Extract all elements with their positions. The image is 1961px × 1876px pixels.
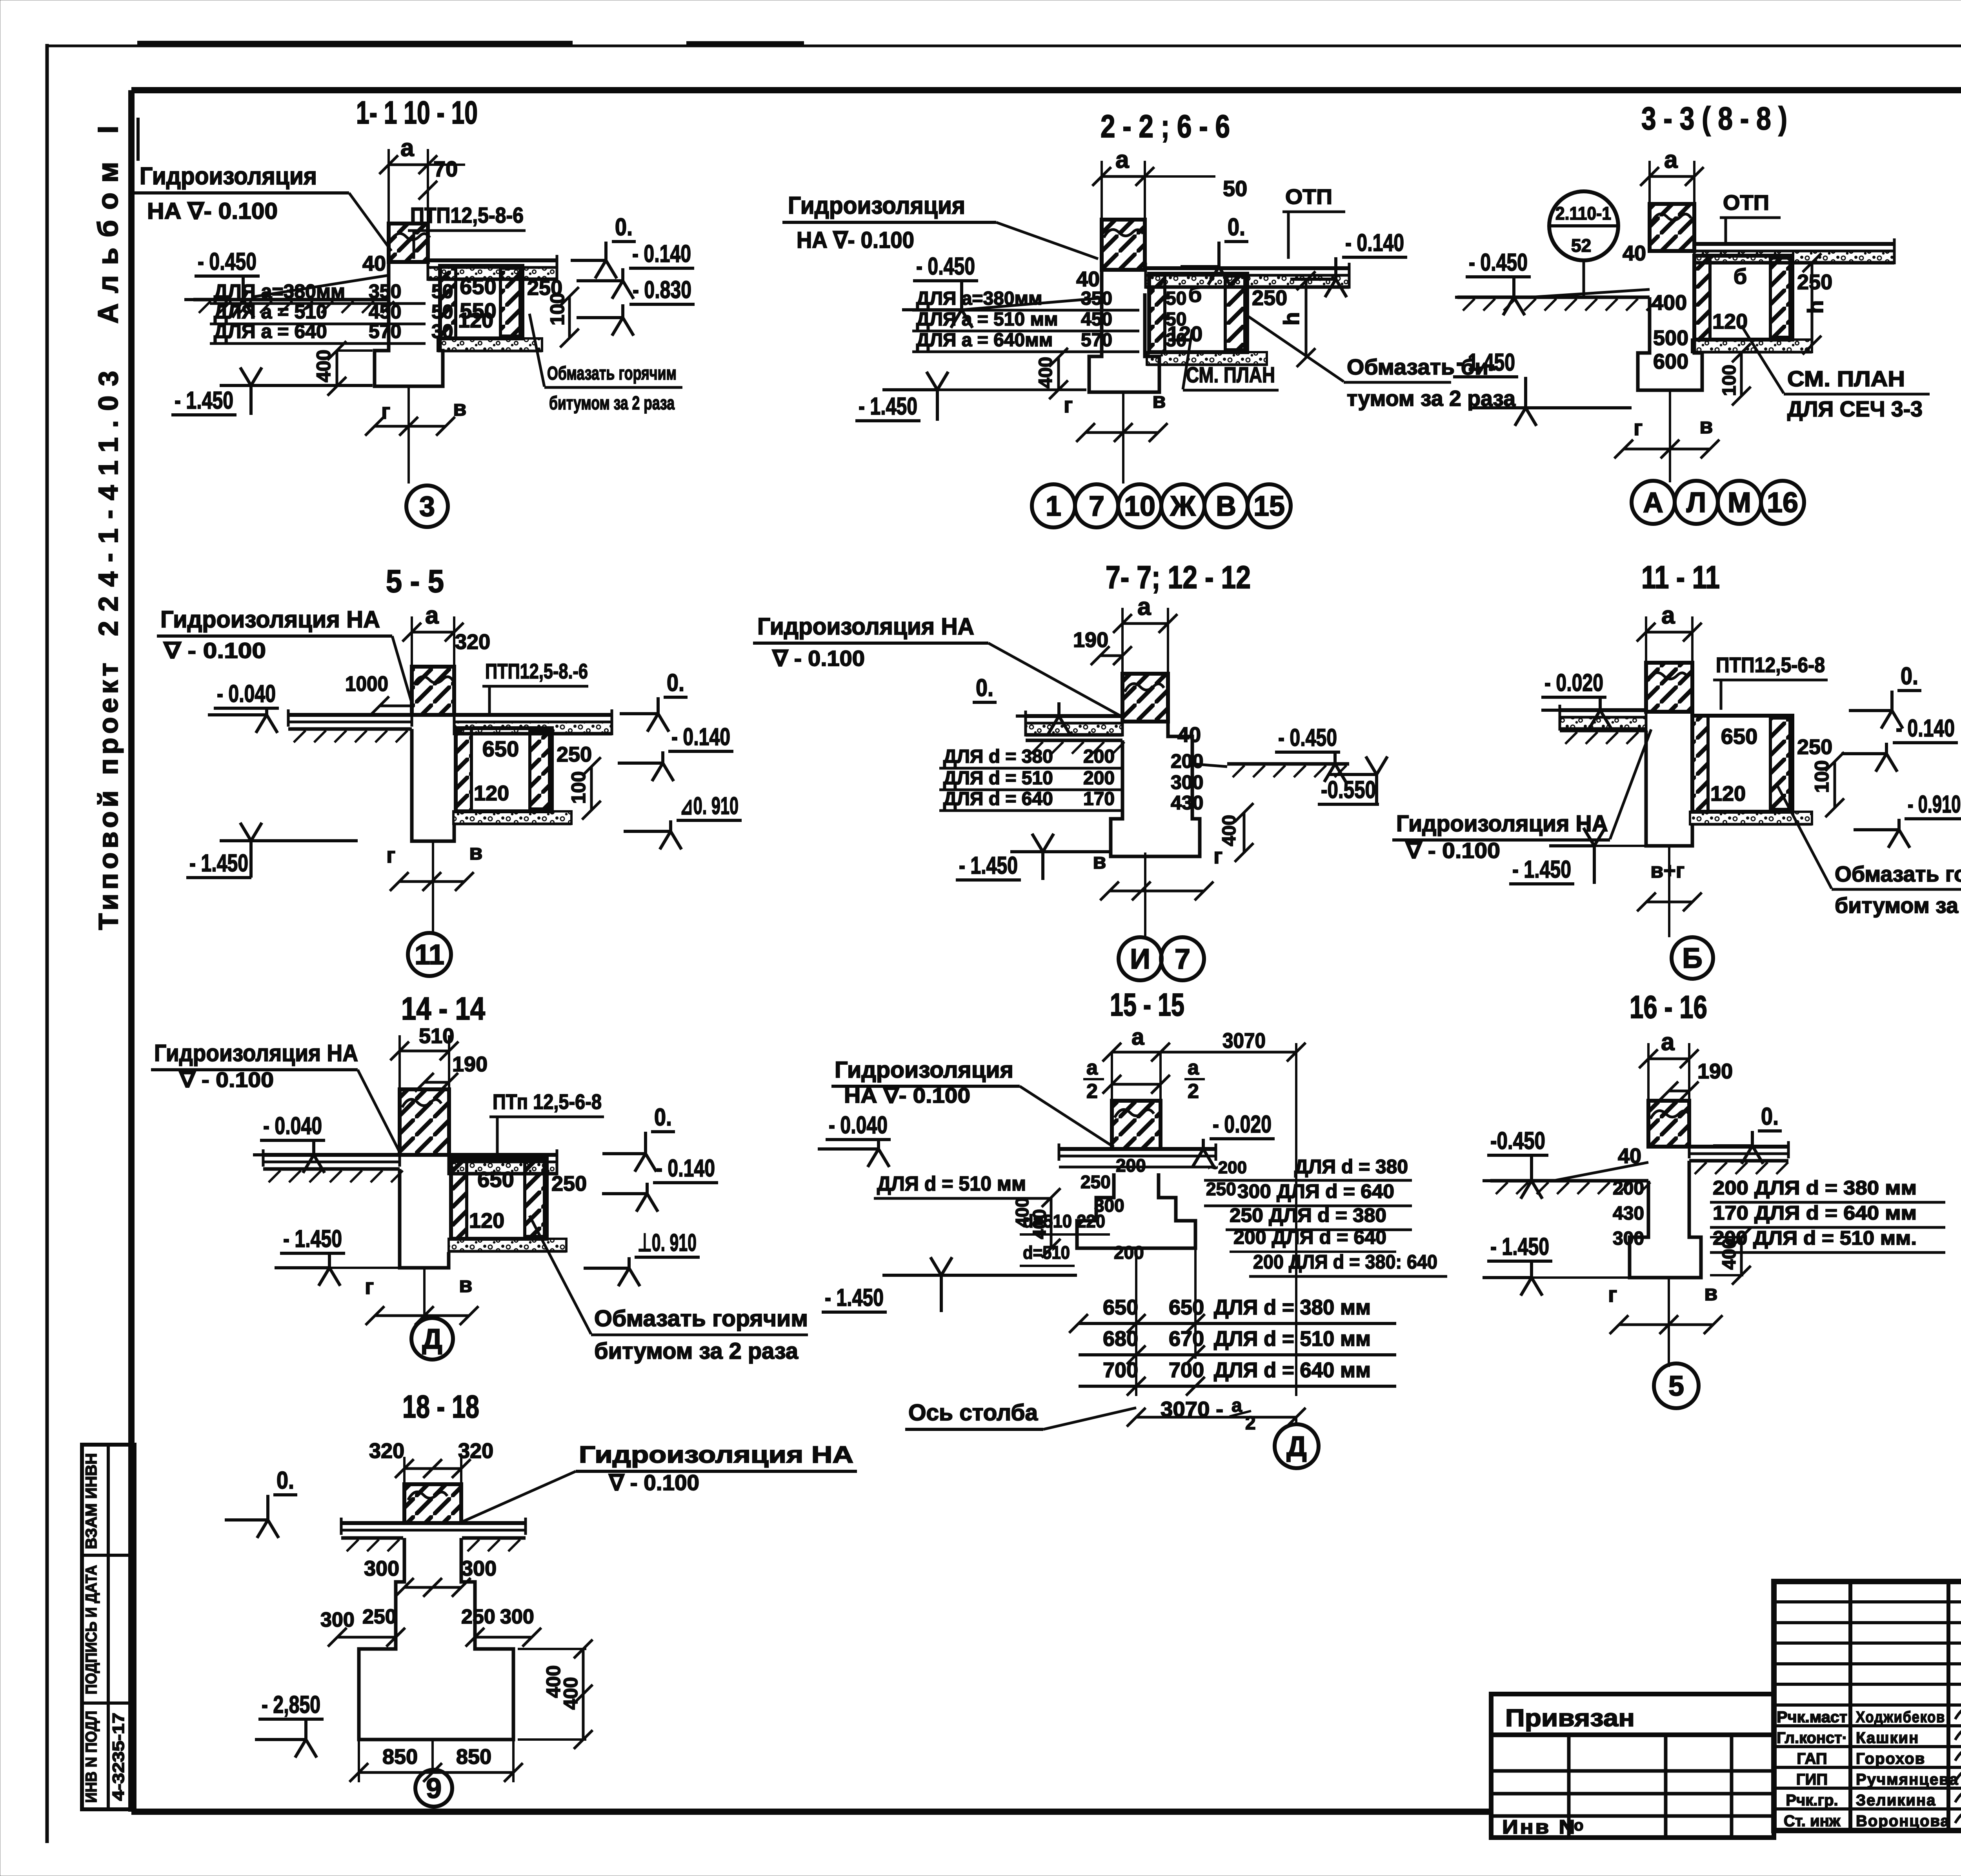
svg-text:Альбом I: Альбом I — [93, 116, 124, 324]
svg-text:200 ДЛЯ d = 640: 200 ДЛЯ d = 640 — [1233, 1226, 1386, 1248]
svg-text:ДЛЯ d = 640 мм: ДЛЯ d = 640 мм — [1214, 1358, 1371, 1382]
svg-text:Д: Д — [422, 1323, 442, 1355]
svg-text:450: 450 — [1081, 309, 1112, 330]
svg-text:Ст. инж: Ст. инж — [1784, 1812, 1841, 1830]
svg-text:650: 650 — [460, 274, 496, 299]
svg-text:0.: 0. — [654, 1104, 672, 1131]
bottom-left rotated stamp column — [82, 1445, 135, 1809]
svg-text:Привязан: Привязан — [1505, 1705, 1635, 1732]
svg-text:300: 300 — [461, 1557, 497, 1580]
svg-text:в: в — [469, 840, 482, 864]
svg-text:а: а — [1115, 146, 1129, 173]
basement box 5-5 — [456, 728, 552, 811]
sheet inner frame — [131, 87, 1961, 93]
svg-text:Ж: Ж — [1170, 491, 1196, 522]
pier below 5-5 — [412, 729, 454, 841]
svg-text:Ось столба: Ось столба — [908, 1400, 1038, 1425]
svg-text:∇ - 0.100: ∇ - 0.100 — [163, 638, 266, 663]
pier and footing 7-7 — [1111, 740, 1200, 856]
svg-text:- 0.140: - 0.140 — [671, 723, 730, 751]
floor slab right 1-1 — [428, 258, 557, 262]
pier below 11-11 — [1646, 731, 1692, 846]
svg-text:СМ. ПЛАН: СМ. ПЛАН — [1186, 362, 1275, 387]
floor slab left 7-7 — [1026, 714, 1122, 718]
svg-text:300: 300 — [500, 1605, 534, 1628]
svg-text:15 - 15: 15 - 15 — [1110, 987, 1184, 1023]
svg-text:Гл.конст·: Гл.конст· — [1777, 1729, 1847, 1747]
svg-text:200: 200 — [1114, 1242, 1144, 1263]
svg-text:16: 16 — [1767, 487, 1798, 518]
column wall hatched 11-11 — [1646, 631, 1692, 634]
svg-text:а: а — [1131, 1024, 1144, 1050]
svg-text:40: 40 — [1623, 242, 1646, 265]
svg-text:430: 430 — [1613, 1203, 1644, 1224]
svg-text:190: 190 — [1073, 628, 1108, 652]
svg-text:650: 650 — [1103, 1296, 1138, 1319]
svg-text:В: В — [1216, 491, 1236, 522]
svg-text:170 ДЛЯ d = 640 мм: 170 ДЛЯ d = 640 мм — [1713, 1202, 1917, 1224]
svg-text:670: 670 — [1169, 1327, 1204, 1351]
svg-text:в: в — [453, 396, 466, 420]
callout bubble 2.110-1/52 — [1549, 191, 1618, 260]
axis circle 11 — [408, 933, 451, 976]
right ledge 7-7 — [1168, 716, 1192, 764]
svg-text:320: 320 — [369, 1439, 404, 1463]
svg-text:г: г — [1634, 415, 1643, 440]
column wall hatched 7-7 — [1122, 622, 1168, 625]
svg-text:а: а — [1086, 1056, 1098, 1079]
stepped pier 15-15 — [1077, 1173, 1195, 1248]
svg-text:б: б — [1188, 282, 1202, 307]
svg-text:ПТП12,5-8.-6: ПТП12,5-8.-6 — [485, 660, 588, 683]
svg-text:∇ - 0.100: ∇ - 0.100 — [1405, 838, 1500, 863]
svg-text:НА ∇- 0.100: НА ∇- 0.100 — [147, 198, 278, 224]
svg-text:ДЛЯ а=380мм: ДЛЯ а=380мм — [214, 280, 345, 302]
svg-text:ОТП: ОТП — [1723, 191, 1769, 215]
svg-text:300: 300 — [320, 1609, 355, 1631]
svg-text:250: 250 — [1252, 286, 1287, 310]
svg-text:ИНВ N ПОДЛ: ИНВ N ПОДЛ — [83, 1711, 100, 1803]
svg-text:- 0.040: - 0.040 — [263, 1113, 322, 1140]
svg-text:- 1.450: - 1.450 — [1456, 349, 1515, 376]
axis circles 1 7 10 Ж В 15 — [1032, 484, 1075, 527]
svg-text:120: 120 — [474, 782, 509, 805]
svg-text:- 0.450: - 0.450 — [916, 253, 975, 280]
svg-text:- 0.450: - 0.450 — [198, 248, 256, 275]
ground slope 2-2 — [962, 298, 1102, 310]
svg-text:250: 250 — [362, 1605, 397, 1628]
svg-text:а: а — [1661, 602, 1675, 629]
svg-text:в: в — [459, 1272, 472, 1297]
foundation wall below ground 1-1 — [375, 262, 443, 386]
svg-text:Кашкин: Кашкин — [1856, 1729, 1919, 1747]
axis circle Д 15-15 — [1275, 1424, 1319, 1468]
svg-text:650: 650 — [1721, 724, 1757, 749]
svg-text:- 0.450: - 0.450 — [1469, 249, 1528, 276]
svg-text:120: 120 — [1712, 310, 1748, 333]
svg-text:Обмазать горячим: Обмазать горячим — [1835, 862, 1961, 886]
svg-text:3070: 3070 — [1222, 1029, 1266, 1053]
svg-text:~200: ~200 — [1208, 1158, 1247, 1177]
svg-text:70: 70 — [433, 156, 458, 181]
svg-text:Гидроизоляция: Гидроизоляция — [788, 192, 965, 219]
svg-text:ВЗАМ ИНВН: ВЗАМ ИНВН — [83, 1453, 100, 1549]
svg-text:650: 650 — [477, 1167, 514, 1192]
svg-text:0.: 0. — [976, 674, 993, 702]
svg-text:50: 50 — [1166, 309, 1186, 330]
svg-text:50: 50 — [1166, 288, 1186, 309]
svg-text:Д: Д — [1286, 1431, 1306, 1462]
svg-text:200: 200 — [1083, 768, 1115, 789]
svg-text:0.: 0. — [1901, 663, 1918, 690]
axis circle Б — [1672, 937, 1713, 979]
svg-text:ДЛЯ d = 380 мм: ДЛЯ d = 380 мм — [1214, 1296, 1371, 1319]
svg-text:- 1.450: - 1.450 — [959, 852, 1018, 879]
svg-text:0.: 0. — [615, 214, 633, 241]
svg-text:5 - 5: 5 - 5 — [386, 564, 444, 599]
svg-text:250 ДЛЯ d = 380: 250 ДЛЯ d = 380 — [1230, 1204, 1386, 1226]
svg-text:Л: Л — [1686, 487, 1706, 518]
svg-text:600: 600 — [1653, 350, 1688, 373]
svg-text:200 ДЛЯ d = 380 мм: 200 ДЛЯ d = 380 мм — [1713, 1177, 1917, 1199]
svg-text:250: 250 — [461, 1605, 495, 1628]
svg-text:⊿0. 910: ⊿0. 910 — [680, 793, 739, 820]
svg-text:300 ДЛЯ d = 640: 300 ДЛЯ d = 640 — [1237, 1180, 1394, 1202]
floor slab right 3-3 — [1694, 242, 1894, 246]
svg-text:а: а — [425, 602, 439, 629]
svg-text:200: 200 — [1171, 750, 1203, 772]
axis circles И 7 — [1119, 937, 1162, 980]
svg-text:18 - 18: 18 - 18 — [402, 1389, 479, 1425]
svg-text:ПТП12,5-8-6: ПТП12,5-8-6 — [410, 203, 524, 227]
column wall hatched 3-3 — [1650, 175, 1694, 178]
svg-text:7: 7 — [1175, 943, 1190, 975]
svg-text:250: 250 — [1081, 1172, 1111, 1192]
svg-text:0.: 0. — [1761, 1103, 1779, 1130]
svg-text:40: 40 — [362, 252, 386, 275]
svg-text:0.: 0. — [667, 669, 684, 696]
svg-text:400: 400 — [1029, 1209, 1050, 1239]
svg-text:250: 250 — [1206, 1179, 1236, 1199]
svg-text:- 0.040: - 0.040 — [829, 1112, 888, 1139]
svg-text:ОТП: ОТП — [1285, 185, 1332, 209]
svg-text:1- 1 10 - 10: 1- 1 10 - 10 — [356, 95, 478, 131]
svg-text:190: 190 — [1697, 1060, 1733, 1083]
svg-text:ДЛЯ d = 380: ДЛЯ d = 380 — [943, 746, 1053, 767]
column wall hatched 15-15 — [1112, 1101, 1161, 1149]
svg-text:НА ∇- 0.100: НА ∇- 0.100 — [797, 227, 914, 253]
basement box 1-1 — [440, 266, 522, 338]
svg-text:40: 40 — [1076, 267, 1100, 291]
svg-text:в: в — [1093, 849, 1106, 873]
svg-text:- 0.020: - 0.020 — [1213, 1111, 1272, 1138]
svg-text:б: б — [1734, 264, 1747, 289]
svg-text:14 - 14: 14 - 14 — [401, 991, 485, 1027]
svg-text:120: 120 — [458, 309, 493, 332]
column wall hatched 18-18 — [404, 1484, 461, 1523]
floor slab left 5-5 (ground level) — [288, 713, 412, 717]
svg-text:Гидроизоляция НА: Гидроизоляция НА — [154, 1040, 358, 1066]
svg-text:52: 52 — [1571, 235, 1591, 256]
svg-text:ДЛЯ а = 640: ДЛЯ а = 640 — [214, 320, 327, 342]
foundation wall below 2-2 — [1089, 270, 1159, 392]
svg-text:h: h — [1803, 300, 1828, 314]
svg-text:- 2,850: - 2,850 — [262, 1691, 320, 1718]
svg-text:3 - 3 ( 8 - 8 ): 3 - 3 ( 8 - 8 ) — [1641, 101, 1787, 136]
svg-text:Типовой проект: Типовой проект — [93, 659, 124, 930]
svg-text:Обмазать горячим: Обмазать горячим — [594, 1306, 808, 1331]
sheet outer border top line — [47, 45, 1961, 47]
svg-text:ДЛЯ а=380мм: ДЛЯ а=380мм — [916, 288, 1042, 309]
ground left 1-1 — [193, 298, 389, 302]
svg-text:ДЛЯ d = 380: ДЛЯ d = 380 — [1294, 1156, 1408, 1178]
svg-text:Гидроизоляция НА: Гидроизоляция НА — [757, 613, 974, 640]
svg-text:а: а — [1664, 146, 1678, 173]
svg-text:И: И — [1130, 943, 1150, 975]
ground left 3-3 — [1457, 296, 1650, 299]
svg-text:в+г: в+г — [1650, 859, 1684, 882]
svg-text:50: 50 — [1223, 176, 1247, 201]
column wall hatched 2-2 — [1102, 175, 1145, 178]
svg-text:11 - 11: 11 - 11 — [1641, 560, 1720, 595]
foundation wall below 3-3 — [1638, 263, 1702, 390]
svg-text:250: 250 — [551, 1172, 587, 1196]
axis circle Д 14-14 — [411, 1318, 453, 1360]
svg-text:320: 320 — [458, 1439, 493, 1463]
svg-text:120: 120 — [469, 1209, 504, 1232]
svg-text:200: 200 — [1613, 1178, 1644, 1199]
svg-text:250: 250 — [1797, 735, 1832, 759]
svg-text:300: 300 — [364, 1557, 399, 1580]
svg-text:5: 5 — [1668, 1371, 1684, 1402]
svg-text:Рчк.маст: Рчк.маст — [1777, 1709, 1847, 1726]
basement box 11-11 — [1692, 716, 1792, 812]
svg-text:170: 170 — [1083, 789, 1115, 809]
svg-text:г: г — [1213, 843, 1222, 868]
svg-text:ДЛЯ d = 510: ДЛЯ d = 510 — [943, 768, 1053, 789]
svg-text:г: г — [1064, 393, 1073, 417]
axis circles А Л М 16 — [1632, 481, 1675, 524]
svg-text:570: 570 — [369, 320, 401, 342]
svg-text:250: 250 — [1797, 271, 1832, 294]
svg-text:Горохов: Горохов — [1856, 1750, 1925, 1767]
svg-text:2.110-1: 2.110-1 — [1555, 203, 1611, 224]
svg-text:М: М — [1728, 487, 1751, 518]
svg-text:450: 450 — [369, 301, 401, 323]
floor slab right 14-14 — [449, 1153, 557, 1157]
basement box 3-3 — [1694, 256, 1792, 340]
svg-text:1000: 1000 — [345, 672, 388, 696]
svg-text:4-3235-17: 4-3235-17 — [109, 1713, 127, 1801]
svg-text:- 1.450: - 1.450 — [283, 1225, 342, 1252]
svg-text:200: 200 — [1116, 1155, 1146, 1176]
svg-text:ДЛЯ а = 640мм: ДЛЯ а = 640мм — [916, 330, 1053, 351]
svg-text:Гидроизоляция НА: Гидроизоляция НА — [1396, 811, 1608, 836]
svg-text:ДЛЯ а = 510 мм: ДЛЯ а = 510 мм — [916, 309, 1058, 330]
svg-text:h: h — [1279, 312, 1304, 325]
svg-text:ПОДПИСЬ И ДАТА: ПОДПИСЬ И ДАТА — [83, 1565, 100, 1694]
svg-text:Гидроизоляция: Гидроизоляция — [835, 1057, 1013, 1083]
svg-text:а: а — [1661, 1029, 1675, 1056]
floor slab left 11-11 — [1560, 708, 1646, 712]
svg-text:700: 700 — [1103, 1358, 1138, 1382]
svg-text:9: 9 — [426, 1773, 442, 1804]
svg-text:200: 200 — [1083, 746, 1115, 767]
svg-text:А: А — [1643, 487, 1663, 518]
column wall hatched 16-16 — [1648, 1058, 1689, 1060]
svg-text:в: в — [1699, 413, 1713, 438]
svg-text:40: 40 — [1618, 1144, 1641, 1168]
column wall hatched 14-14 — [400, 1050, 449, 1053]
svg-text:битумом за 2 раза: битумом за 2 раза — [549, 393, 675, 414]
svg-text:битумом за 2 раза: битумом за 2 раза — [1835, 893, 1961, 918]
svg-text:Рчк.гр.: Рчк.гр. — [1786, 1792, 1838, 1809]
axis circle 5 16-16 — [1654, 1363, 1699, 1408]
svg-text:2: 2 — [1188, 1080, 1199, 1103]
svg-text:7: 7 — [1089, 491, 1104, 522]
svg-text:510: 510 — [419, 1024, 454, 1048]
svg-text:г: г — [1608, 1282, 1617, 1307]
svg-text:∇ - 0.100: ∇ - 0.100 — [179, 1068, 274, 1092]
floor slab right 2-2 — [1146, 266, 1349, 270]
svg-text:570: 570 — [1081, 330, 1112, 351]
svg-text:Ручмянцева: Ручмянцева — [1856, 1771, 1959, 1788]
svg-text:320: 320 — [455, 630, 490, 654]
svg-text:350: 350 — [369, 280, 401, 302]
svg-text:2 - 2 ; 6 - 6: 2 - 2 ; 6 - 6 — [1101, 109, 1230, 144]
floor slab left 14-14 — [263, 1153, 400, 1157]
svg-text:г: г — [365, 1274, 374, 1299]
svg-text:100: 100 — [1719, 365, 1740, 396]
floor slab both 18-18 — [341, 1521, 526, 1525]
svg-text:в: в — [1704, 1280, 1717, 1305]
svg-text:7- 7; 12 - 12: 7- 7; 12 - 12 — [1106, 560, 1251, 595]
svg-text:о: о — [1574, 1817, 1583, 1834]
svg-text:⊥0. 910: ⊥0. 910 — [638, 1229, 697, 1256]
svg-text:11: 11 — [415, 939, 444, 971]
svg-text:- 1.450: - 1.450 — [1490, 1233, 1549, 1260]
svg-text:ДЛЯ d = 510 мм: ДЛЯ d = 510 мм — [1214, 1327, 1371, 1351]
floor slab right 16-16 — [1689, 1145, 1788, 1149]
svg-text:ДЛЯ СЕЧ 3-3: ДЛЯ СЕЧ 3-3 — [1787, 396, 1923, 421]
svg-text:- 0.140: - 0.140 — [632, 240, 691, 267]
svg-text:400: 400 — [1652, 291, 1687, 314]
svg-text:Инв N: Инв N — [1502, 1816, 1577, 1838]
svg-text:ГИП: ГИП — [1796, 1771, 1828, 1788]
svg-text:430: 430 — [1171, 792, 1203, 814]
svg-text:700: 700 — [1169, 1358, 1204, 1382]
svg-text:ДЛЯ d = 640: ДЛЯ d = 640 — [943, 789, 1053, 809]
svg-text:1: 1 — [1046, 491, 1061, 522]
svg-text:- 0.140: - 0.140 — [656, 1155, 715, 1182]
svg-text:- 0.140: - 0.140 — [1345, 229, 1404, 256]
svg-text:- 0.830: - 0.830 — [633, 276, 691, 304]
svg-text:- 0.450: - 0.450 — [1278, 724, 1337, 751]
svg-text:300: 300 — [1171, 771, 1203, 793]
svg-text:10: 10 — [1124, 491, 1155, 522]
sheet outer border left line — [45, 44, 49, 1843]
svg-text:а: а — [1188, 1056, 1199, 1079]
column wall hatched 1-1 — [389, 164, 428, 166]
svg-text:Б: Б — [1682, 943, 1703, 974]
svg-text:ГАП: ГАП — [1797, 1750, 1827, 1767]
svg-text:- 1.450: - 1.450 — [1512, 856, 1571, 883]
svg-text:- 1.450: - 1.450 — [189, 850, 248, 877]
svg-text:ДЛЯ d = 510 мм: ДЛЯ d = 510 мм — [877, 1172, 1026, 1195]
svg-text:ПТп 12,5-6-8: ПТп 12,5-6-8 — [493, 1090, 602, 1114]
basement box 2-2 — [1149, 274, 1247, 352]
svg-text:а: а — [1137, 593, 1151, 620]
svg-text:ДЛЯ а = 510: ДЛЯ а = 510 — [214, 301, 327, 323]
svg-text:680: 680 — [1103, 1327, 1138, 1351]
svg-text:- 1.450: - 1.450 — [825, 1284, 884, 1311]
svg-text:250: 250 — [527, 276, 562, 300]
top dims 15-15 — [1112, 1051, 1161, 1054]
svg-text:Ходжибеков: Ходжибеков — [1856, 1709, 1945, 1726]
svg-text:- 0.040: - 0.040 — [217, 680, 276, 707]
column wall hatched 5-5 — [412, 631, 454, 634]
svg-text:∇ - 0.100: ∇ - 0.100 — [772, 646, 865, 671]
svg-text:200 ДЛЯ d = 380: 640: 200 ДЛЯ d = 380: 640 — [1253, 1251, 1437, 1273]
svg-text:битумом за 2 раза: битумом за 2 раза — [594, 1338, 799, 1364]
svg-text:Воронцова: Воронцова — [1856, 1812, 1950, 1830]
axis circle 9 18-18 — [415, 1770, 452, 1807]
svg-text:а: а — [400, 135, 414, 162]
privyazan table — [1491, 1694, 1774, 1838]
svg-text:ПТП12,5-6-8: ПТП12,5-6-8 — [1716, 653, 1825, 677]
svg-text:650: 650 — [482, 736, 519, 761]
ground left 16-16 — [1490, 1179, 1648, 1183]
svg-text:30: 30 — [1166, 330, 1186, 351]
axis circle 3 — [406, 485, 448, 527]
svg-text:250: 250 — [557, 743, 592, 766]
svg-text:850: 850 — [382, 1745, 418, 1769]
svg-text:Обмазать горячим: Обмазать горячим — [547, 363, 677, 384]
svg-text:- 0.140: - 0.140 — [1896, 715, 1955, 742]
svg-text:Гидроизоляция НА: Гидроизоляция НА — [579, 1442, 853, 1468]
svg-text:850: 850 — [456, 1745, 491, 1769]
ground right 7-7 — [1227, 762, 1349, 766]
svg-text:г: г — [386, 843, 395, 867]
floor slab 15-15 — [1059, 1147, 1216, 1151]
svg-text:3: 3 — [419, 491, 435, 522]
pier and footing 16-16 — [1630, 1161, 1701, 1278]
svg-text:15: 15 — [1253, 491, 1285, 522]
floor slab right 5-5 — [454, 713, 612, 717]
svg-text:0.: 0. — [277, 1467, 294, 1494]
svg-text:100: 100 — [568, 771, 589, 804]
svg-text:Гидроизоляция НА: Гидроизоляция НА — [160, 606, 380, 633]
svg-text:0.: 0. — [1228, 214, 1245, 241]
svg-text:400: 400 — [560, 1677, 582, 1710]
svg-text:Зеликина: Зеликина — [1856, 1792, 1936, 1809]
svg-text:- 0.020: - 0.020 — [1544, 669, 1603, 696]
svg-text:16 - 16: 16 - 16 — [1630, 989, 1707, 1025]
svg-text:∇ - 0.100: ∇ - 0.100 — [608, 1470, 699, 1495]
svg-text:40: 40 — [1177, 723, 1201, 747]
title block table — [1774, 1582, 1961, 1831]
svg-text:- 0.910·: - 0.910· — [1908, 791, 1961, 818]
stepped pier 18-18 — [359, 1538, 513, 1740]
svg-text:-0.550: -0.550 — [1321, 776, 1376, 803]
svg-text:224-1-411.03: 224-1-411.03 — [93, 362, 124, 636]
basement box 14-14 — [451, 1159, 547, 1239]
svg-text:500: 500 — [1653, 326, 1688, 350]
svg-text:- 1.450: - 1.450 — [859, 393, 917, 420]
pier below 14-14 — [400, 1169, 449, 1268]
svg-text:СМ. ПЛАН: СМ. ПЛАН — [1787, 366, 1905, 391]
svg-text:Гидроизоляция: Гидроизоляция — [140, 163, 317, 190]
